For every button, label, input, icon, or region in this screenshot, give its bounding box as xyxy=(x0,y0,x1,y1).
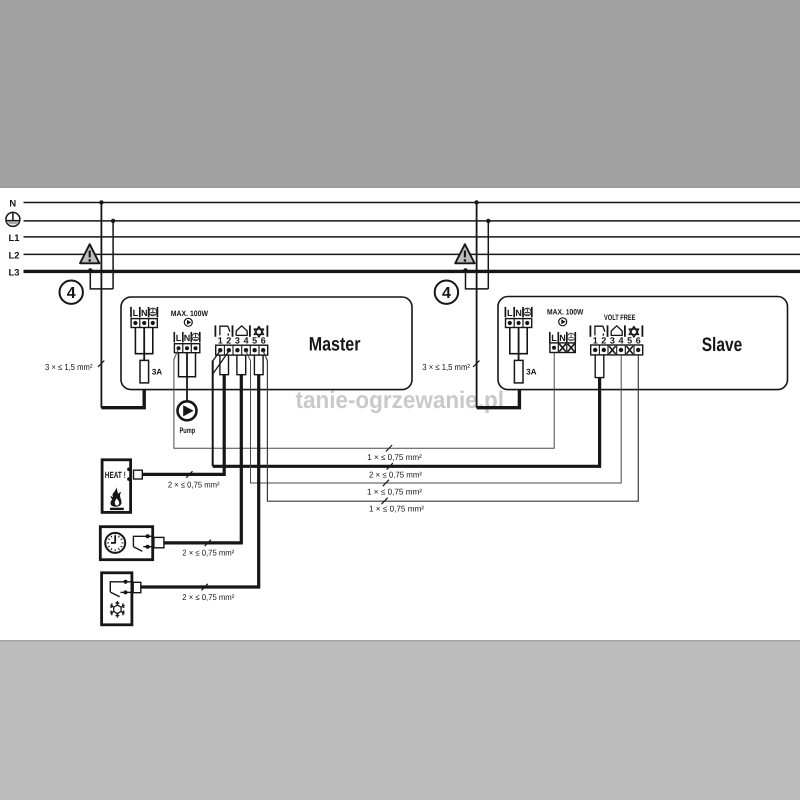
cable 2x0,75 master 1+2 to slave 1+2 (bold) xyxy=(213,378,600,467)
svg-text:6: 6 xyxy=(636,336,641,346)
bold wire N-drop to fuse (slave) xyxy=(477,383,520,408)
cable bracket terminals 5-6 (master) xyxy=(254,355,263,375)
svg-text:L: L xyxy=(551,333,557,343)
pump run icon (master) xyxy=(184,318,192,326)
circled note 4 (slave) xyxy=(435,281,458,304)
terminal row (slave pump) xyxy=(550,343,575,353)
crossed terminal PE (slave pump) xyxy=(568,344,575,352)
svg-text:N: N xyxy=(184,333,191,343)
switch dot upper (thermostat) xyxy=(146,534,150,538)
junction dot on PE (slave drop) xyxy=(486,219,490,223)
switch dot lower (cooling) xyxy=(124,590,128,594)
boiler terminal dot upper xyxy=(127,468,131,472)
svg-text:5: 5 xyxy=(627,336,632,346)
svg-text:3 × ≤ 1,5 mm²: 3 × ≤ 1,5 mm² xyxy=(422,362,470,372)
cable slash mark (heat link) xyxy=(383,480,389,487)
wire PE drop to slave xyxy=(487,221,489,289)
svg-text:VOLT FREE: VOLT FREE xyxy=(604,313,635,322)
bus L2 xyxy=(24,253,800,255)
svg-text:4: 4 xyxy=(618,336,623,346)
terminal dot 2 (slave) xyxy=(602,348,606,352)
wire L3 tap (slave cable bundle) xyxy=(466,271,489,289)
cable bracket pump N+PE (master) xyxy=(179,353,196,377)
cable bracket L+PE (master power) xyxy=(135,328,152,354)
cooling switch contact xyxy=(110,582,133,597)
wire N drop to master xyxy=(100,203,102,408)
switch dot lower (thermostat) xyxy=(146,545,150,549)
svg-text:3: 3 xyxy=(235,336,240,346)
cable bracket terminals 1-2 (slave) xyxy=(595,355,604,378)
cable slash mark (pump L link) xyxy=(386,445,392,452)
background white band xyxy=(0,188,800,640)
wire pump L to slave pump L (1x0,75) xyxy=(174,349,554,448)
svg-text:N: N xyxy=(9,197,16,208)
fuse 3A (slave) xyxy=(514,360,523,383)
pump symbol (master) xyxy=(178,401,197,420)
cable 2x0,75 to clock thermostat (bold) xyxy=(164,375,241,543)
svg-text:2 × ≤ 0,75 mm²: 2 × ≤ 0,75 mm² xyxy=(182,592,234,602)
wire 1x0,75 master 4 to slave 4 xyxy=(251,355,622,483)
crossed terminal 3 (slave) xyxy=(609,346,616,354)
wire 1x0,75 master 6 to slave 6 xyxy=(267,355,638,501)
cooling box xyxy=(102,573,132,625)
svg-text:2: 2 xyxy=(601,336,606,346)
svg-text:3A: 3A xyxy=(152,367,163,376)
terminal dot L (master pump) xyxy=(177,346,181,350)
terminal row 1-6 (master) xyxy=(216,345,268,355)
junction dot on L3 (slave tap) xyxy=(463,268,468,273)
circled note 4 (master) xyxy=(59,281,82,304)
terminal label separators (master power) xyxy=(130,307,132,317)
cable slash mark (contact link) xyxy=(387,463,393,470)
thermostat plug connector xyxy=(154,537,164,547)
wire N to fuse (slave) xyxy=(518,328,520,361)
wire terminal6 diagonal xyxy=(263,351,267,361)
terminal dot 4 (slave) xyxy=(619,348,623,352)
wire N drop to slave xyxy=(476,203,478,408)
terminal dots 1-6 (master) xyxy=(218,348,222,352)
svg-text:6: 6 xyxy=(261,336,266,346)
crossed terminal N (slave pump) xyxy=(559,344,566,352)
pin label PE glyph (master pump) xyxy=(192,333,199,340)
cable bracket L+PE (slave power) xyxy=(510,328,527,354)
cable bracket terminals 3-4 (master) xyxy=(237,355,246,375)
svg-text:3A: 3A xyxy=(526,367,537,376)
svg-text:Slave: Slave xyxy=(702,334,743,356)
svg-text:4: 4 xyxy=(67,285,76,302)
terminal row (master pump) xyxy=(174,344,199,353)
clock hands xyxy=(111,536,116,544)
svg-text:1: 1 xyxy=(593,336,598,346)
thermostat switch contact xyxy=(133,536,154,551)
warning triangle (master) xyxy=(80,244,99,263)
svg-text:5: 5 xyxy=(252,336,257,346)
cable slash mark (thermostat cable) xyxy=(205,540,211,547)
cable slash mark (boiler cable) xyxy=(186,471,192,478)
svg-text:MAX. 100W: MAX. 100W xyxy=(547,308,584,317)
svg-text:L: L xyxy=(176,333,182,343)
svg-text:N: N xyxy=(141,308,148,318)
background top gray band xyxy=(0,0,800,188)
boiler box xyxy=(102,460,131,513)
terminal row 1-6 (slave) xyxy=(591,345,643,355)
thermostat box xyxy=(100,527,152,560)
wire terminal2 diagonal to slave cable xyxy=(213,351,229,373)
pump run icon (slave) xyxy=(559,318,567,326)
svg-text:2 × ≤ 0,75 mm²: 2 × ≤ 0,75 mm² xyxy=(182,548,234,558)
bus L3 (bold) xyxy=(24,270,800,273)
terminal dot L (slave pump) xyxy=(552,346,556,350)
switch dot upper (cooling) xyxy=(124,580,128,584)
svg-text:L3: L3 xyxy=(9,267,20,278)
svg-text:L1: L1 xyxy=(9,232,20,243)
pin label PE glyph (master power) xyxy=(149,308,157,316)
boiler plug connector xyxy=(134,470,143,479)
pin label PE glyph (slave power) xyxy=(524,308,532,316)
bus N xyxy=(24,202,800,204)
terminal dot N (master power) xyxy=(142,321,146,325)
terminal dot PE (master power) xyxy=(151,321,155,325)
icon heat demand terminals 3-4 (master) xyxy=(236,326,247,336)
svg-text:3 × ≤ 1,5 mm²: 3 × ≤ 1,5 mm² xyxy=(45,362,93,372)
terminal dot 1 (slave) xyxy=(593,348,597,352)
terminal label separators (slave power) xyxy=(504,307,506,317)
junction dot on N (slave drop) xyxy=(474,200,478,204)
svg-text:N: N xyxy=(515,308,522,318)
wire terminal4 diagonal xyxy=(246,351,251,361)
svg-text:1 × ≤ 0,75 mm²: 1 × ≤ 0,75 mm² xyxy=(369,503,424,513)
slave controller box xyxy=(498,297,788,390)
icon separators (slave inputs) xyxy=(589,325,591,336)
icon separators (master outputs) xyxy=(214,325,216,336)
terminal dot 6 (slave) xyxy=(636,348,640,352)
cable slash mark (master feed) xyxy=(98,361,104,367)
svg-text:3: 3 xyxy=(610,336,615,346)
cable slash mark (slave feed) xyxy=(473,361,479,367)
svg-text:L2: L2 xyxy=(9,250,20,261)
flame underline xyxy=(110,508,124,510)
svg-text:L: L xyxy=(133,308,139,318)
terminal dot N (master pump) xyxy=(185,346,189,350)
warning triangle (slave) xyxy=(455,244,474,263)
svg-text:L: L xyxy=(507,308,513,318)
flame icon xyxy=(111,487,122,507)
svg-text:1: 1 xyxy=(218,336,223,346)
svg-text:HEAT !: HEAT ! xyxy=(105,470,126,480)
cable 2x0,75 to boiler HEAT (bold) xyxy=(143,375,225,475)
svg-text:Pump: Pump xyxy=(180,426,196,435)
wire L3 tap (master cable bundle) xyxy=(90,271,113,289)
icon relay contact terminals 1-2 (master) xyxy=(220,326,230,336)
wire PE drop to master xyxy=(112,221,114,289)
terminal dot PE (slave power) xyxy=(525,321,529,325)
icon heat demand terminals 3-4 (slave) xyxy=(611,326,622,336)
bold wire N-drop to fuse (master) xyxy=(101,383,144,408)
svg-text:N: N xyxy=(559,333,566,343)
terminal row (slave power) xyxy=(506,319,532,328)
crossed terminal 5 (slave) xyxy=(626,346,633,354)
svg-text:2 × ≤ 0,75 mm²: 2 × ≤ 0,75 mm² xyxy=(369,470,422,480)
bus L1 xyxy=(24,236,800,238)
master controller box xyxy=(121,297,412,390)
bus PE (earth) xyxy=(24,220,800,222)
svg-text:2: 2 xyxy=(226,336,231,346)
icon cooling star terminals 5-6 (master) xyxy=(254,326,263,337)
terminal dot PE (master pump) xyxy=(194,346,198,350)
cooling plug connector xyxy=(133,582,141,592)
snowflake icon xyxy=(110,601,124,618)
terminal label separators (slave pump) xyxy=(549,332,551,343)
cable slash mark (cool link) xyxy=(382,498,388,505)
svg-text:Master: Master xyxy=(309,334,361,356)
svg-text:4: 4 xyxy=(442,285,451,302)
terminal dot L (master power) xyxy=(133,321,137,325)
cable 2x0,75 to cooling contact (bold) xyxy=(141,375,259,587)
cable bracket terminals 1-2 (master) xyxy=(220,355,229,375)
clock ticks xyxy=(107,535,124,552)
terminal label separators (master pump) xyxy=(173,332,175,343)
cable slash mark (cooling cable) xyxy=(202,584,208,591)
wire terminal1 diagonal to slave cable xyxy=(213,351,221,361)
wire master 1+2 down xyxy=(212,361,214,467)
background bottom gray band xyxy=(0,640,800,800)
wire N to fuse (master) xyxy=(143,328,145,361)
svg-text:2 × ≤ 0,75 mm²: 2 × ≤ 0,75 mm² xyxy=(168,479,220,489)
svg-text:1 × ≤ 0,75 mm²: 1 × ≤ 0,75 mm² xyxy=(367,452,422,462)
svg-text:MAX. 100W: MAX. 100W xyxy=(171,309,209,318)
flame inner cutout xyxy=(115,498,119,505)
boiler terminal dot lower xyxy=(127,477,131,481)
wire pump N down to pump (master) xyxy=(186,353,188,402)
terminal dot L (slave power) xyxy=(508,321,512,325)
svg-text:4: 4 xyxy=(243,336,248,346)
fuse 3A (master) xyxy=(140,360,149,383)
pin label PE glyph (slave pump) xyxy=(567,333,574,340)
junction dot on PE (master drop) xyxy=(111,219,115,223)
terminal dot N (slave power) xyxy=(517,321,521,325)
clock face xyxy=(105,533,125,553)
junction dot on N (master drop) xyxy=(99,200,103,204)
svg-text:tanie-ogrzewanie.pl: tanie-ogrzewanie.pl xyxy=(296,387,505,414)
earth symbol xyxy=(6,212,20,226)
junction dot on L3 (master tap) xyxy=(88,268,93,273)
terminal row (master power) xyxy=(131,319,157,328)
icon cooling star terminals 5-6 (slave) xyxy=(629,326,638,337)
icon relay contact terminals 1-2 (slave) xyxy=(595,326,605,336)
svg-text:1 × ≤ 0,75 mm²: 1 × ≤ 0,75 mm² xyxy=(367,487,422,497)
